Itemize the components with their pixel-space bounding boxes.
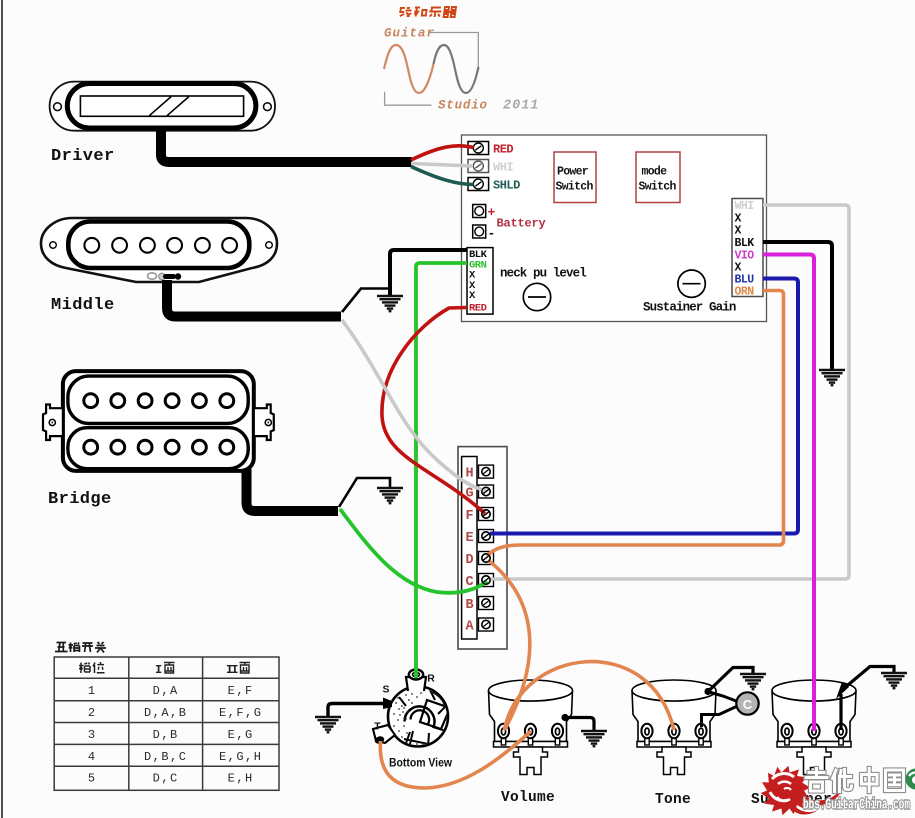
svg-text:Sustainer Gain: Sustainer Gain (643, 301, 736, 315)
wire orange D to volume left lug (488, 560, 530, 730)
svg-text:Volume: Volume (501, 790, 555, 806)
svg-text:E,H: E,H (228, 772, 254, 786)
svg-text:-: - (488, 226, 496, 241)
logo sine wave gray (434, 45, 479, 93)
svg-text:E,F,G: E,F,G (219, 706, 263, 720)
board terminal SHLD (468, 178, 489, 191)
wire RED from board to F (382, 308, 485, 514)
watermark dragon logo (761, 766, 843, 816)
svg-text:Guitar: Guitar (384, 27, 435, 41)
svg-text:E,F: E,F (228, 684, 254, 698)
8-pin connector label strip (462, 457, 477, 640)
switch S terminal (383, 698, 392, 710)
svg-text:Tone: Tone (655, 792, 691, 808)
switch R terminal ring (409, 670, 423, 680)
mode switch box (636, 152, 680, 203)
wire WHI gray long loop to C (490, 205, 849, 579)
svg-text:A: A (465, 619, 474, 634)
driver pickup cover (thick) (67, 84, 256, 129)
switch T terminal (373, 725, 395, 743)
middle pickup base plate (41, 218, 277, 282)
svg-text:+: + (488, 205, 496, 220)
svg-text:D: D (465, 553, 473, 568)
table title CJK (five-way switch) (55, 642, 106, 653)
svg-text:D,A,B: D,A,B (144, 706, 188, 720)
svg-text:RED: RED (493, 143, 513, 157)
svg-text:H: H (465, 466, 473, 481)
pin B terminal (479, 597, 494, 610)
wire tone casing to capacitor (709, 692, 738, 702)
wire middle pickup white to G (342, 320, 486, 491)
svg-text:mode: mode (642, 166, 668, 179)
ground (tone casing) (740, 674, 766, 689)
svg-text:D,A: D,A (153, 684, 179, 698)
volume pot (489, 680, 573, 775)
pin G terminal (479, 485, 494, 498)
green wire tip over switch R (414, 662, 418, 678)
middle pickup right screw hole (266, 242, 273, 249)
svg-text:I: I (155, 663, 162, 677)
middle pickup pole pieces (84, 238, 237, 253)
five-way switch table grid (54, 657, 279, 790)
bridge bottom coil (68, 428, 248, 469)
svg-text:R: R (427, 673, 435, 685)
volume casing ground lug dot (561, 714, 568, 721)
5-way switch body (bottom view) (388, 687, 448, 747)
svg-text:WHI: WHI (735, 200, 755, 213)
middle cable (thick) (167, 280, 341, 317)
pin D terminal (479, 552, 494, 565)
middle pickup lead connector detail (148, 273, 182, 280)
driver cable (thick) (161, 128, 412, 162)
8-pin connector block outer (458, 447, 507, 649)
capacitor C (736, 692, 758, 714)
left page border line (1, 0, 3, 818)
svg-text:S: S (382, 684, 389, 696)
bridge humbucker left mounting tab (43, 405, 63, 441)
driver pickup window slash 1 (149, 97, 171, 116)
wire orange switch T to volume middle lug (380, 731, 531, 788)
wire middle pickup drain to ground junction (342, 289, 390, 313)
svg-text:D,B,C: D,B,C (144, 750, 188, 764)
svg-text:bbs.GuitarChina.com: bbs.GuitarChina.com (803, 798, 910, 814)
svg-text:D,B: D,B (153, 728, 179, 742)
svg-text:2011: 2011 (503, 99, 539, 114)
svg-text:SHLD: SHLD (493, 179, 520, 193)
wire GRN green down to switch R (416, 263, 467, 676)
svg-text:E,G,H: E,G,H (219, 750, 263, 764)
green badge at right edge (906, 769, 915, 790)
bridge humbucker frame (63, 371, 254, 471)
sustainer gain trim pot (678, 270, 705, 297)
svg-text:T: T (374, 721, 381, 733)
svg-text:1: 1 (88, 684, 95, 698)
svg-text:RED: RED (469, 302, 487, 314)
wire driver red to RED (411, 146, 474, 160)
ground (board BLK output) (819, 370, 845, 385)
wire orange volume left lug to tone middle lug (505, 662, 675, 730)
driver pickup outer shell (50, 82, 275, 131)
pin F terminal (479, 508, 494, 521)
sustainer control board outline (462, 135, 767, 322)
wire driver white to WHI (411, 164, 473, 167)
svg-text:II: II (226, 663, 238, 677)
svg-text:E: E (465, 531, 473, 546)
logo CJK title (brand characters) (399, 7, 457, 17)
wire sustainer right lug to ground (839, 694, 842, 730)
switch shaft neck (406, 677, 426, 691)
bridge pole pieces bottom row (84, 440, 234, 454)
ground (volume casing) (581, 731, 607, 746)
battery terminal plus (473, 205, 486, 218)
bridge cable (thick) (247, 469, 339, 511)
svg-text:B: B (465, 598, 473, 613)
svg-text:WHI: WHI (493, 161, 513, 175)
svg-text:BLK: BLK (735, 237, 755, 250)
middle pickup left screw hole (50, 242, 57, 249)
tone pot (632, 680, 716, 775)
ground (bridge pickup) (377, 488, 403, 503)
bridge pole pieces top row (84, 394, 234, 408)
wire driver shield to SHLD (411, 167, 474, 185)
svg-text:ORN: ORN (735, 286, 755, 299)
svg-text:4: 4 (88, 750, 95, 764)
bridge right tab screw (265, 419, 271, 425)
wire switch S to ground (328, 704, 385, 717)
ground (sustainer) (881, 673, 907, 688)
pin E terminal (479, 530, 494, 543)
svg-text:Bottom View: Bottom View (389, 756, 452, 770)
logo bracket top-right (430, 33, 479, 72)
watermark CJK GuitarChina (outlined) (806, 769, 904, 792)
driver pickup left screw hole (54, 103, 62, 111)
svg-text:F: F (465, 509, 473, 524)
svg-text:Studio: Studio (438, 99, 488, 113)
terminal circle overlays (482, 487, 490, 584)
wire ORN orange to D (487, 291, 784, 557)
wire capacitor to tone right lug (702, 706, 738, 727)
middle pickup cover (thick) (68, 222, 249, 269)
driver pickup window slash 2 (167, 97, 189, 116)
bridge left tab screw (49, 419, 55, 425)
svg-text:neck pu level: neck pu level (500, 267, 586, 281)
svg-text:X: X (735, 225, 742, 238)
bridge top coil (68, 376, 248, 423)
svg-text:Battery: Battery (497, 217, 546, 231)
svg-text:C: C (743, 697, 753, 712)
wire tone casing to ground (708, 668, 753, 692)
sustainer pot (772, 680, 856, 775)
svg-text:D,C: D,C (153, 772, 179, 786)
svg-text:5: 5 (88, 772, 95, 786)
table header CJK gear/position (79, 662, 105, 673)
wire bridge green to C (340, 509, 487, 593)
tone casing dot (704, 688, 711, 695)
table body (88, 684, 263, 786)
wire BLU blue to E (490, 279, 798, 534)
neck pu level trim pot (523, 283, 550, 310)
svg-text:3: 3 (88, 728, 95, 742)
driver pickup window (80, 96, 243, 116)
svg-text:2: 2 (88, 706, 95, 720)
pin letters H..A (465, 466, 474, 634)
wire volume casing to ground (565, 718, 594, 731)
ground (middle pickup / BLK) (377, 296, 403, 311)
svg-text:Middle: Middle (51, 296, 115, 315)
svg-text:Switch: Switch (639, 181, 677, 194)
svg-text:E,G: E,G (228, 728, 254, 742)
wire VIO magenta down to sustainer middle lug (763, 255, 814, 732)
board terminal WHI (468, 160, 489, 173)
board terminal RED (468, 142, 489, 155)
logo sine wave orange (384, 45, 434, 93)
left pickup connector block (467, 248, 493, 315)
pin H terminal (479, 465, 494, 478)
battery terminal minus (473, 225, 486, 238)
svg-text:Bridge: Bridge (48, 490, 112, 509)
logo bracket bottom-left (385, 92, 432, 105)
svg-text:Switch: Switch (556, 181, 594, 194)
bridge humbucker right mounting tab (254, 405, 274, 441)
power switch box (554, 152, 596, 203)
ground (switch S) (315, 717, 341, 732)
pin A terminal (479, 618, 494, 631)
right output connector block (732, 199, 763, 297)
wire BLK right to ground (763, 242, 832, 369)
driver pickup right screw hole (264, 103, 272, 111)
wire BLK from left connector to ground (390, 250, 467, 295)
svg-text:Driver: Driver (51, 147, 115, 166)
pin C terminal (479, 574, 494, 587)
wire bridge drain to ground (339, 478, 390, 507)
svg-text:Power: Power (557, 166, 589, 179)
